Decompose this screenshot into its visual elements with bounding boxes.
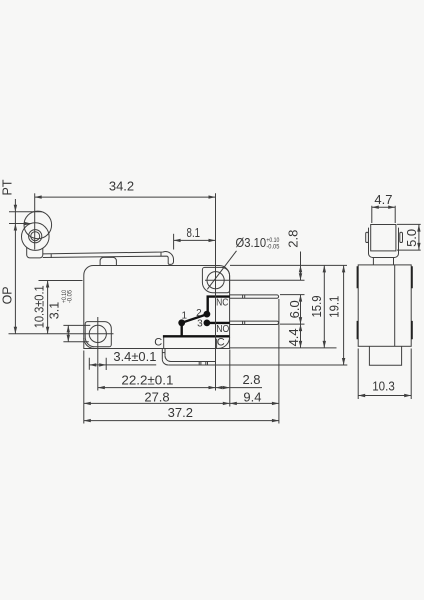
svg-text:Ø3.10: Ø3.10	[236, 235, 267, 250]
svg-text:2: 2	[196, 308, 202, 319]
svg-text:C: C	[154, 336, 162, 348]
svg-text:4.4: 4.4	[286, 328, 301, 346]
svg-text:5.0: 5.0	[404, 229, 419, 247]
svg-text:3: 3	[197, 319, 203, 330]
svg-text:3.4±0.1: 3.4±0.1	[113, 349, 156, 364]
svg-text:-0.05: -0.05	[266, 243, 279, 250]
svg-text:-0.05: -0.05	[66, 290, 73, 303]
svg-text:2.8: 2.8	[242, 372, 260, 387]
svg-text:27.8: 27.8	[144, 390, 169, 405]
svg-text:NO: NO	[216, 324, 229, 335]
svg-text:2.8: 2.8	[285, 230, 300, 248]
svg-text:9.4: 9.4	[243, 389, 261, 404]
svg-text:6.0: 6.0	[287, 300, 302, 318]
svg-text:PT: PT	[0, 179, 14, 195]
svg-text:37.2: 37.2	[168, 405, 193, 420]
svg-text:10.3±0.1: 10.3±0.1	[32, 285, 47, 328]
svg-text:4.7: 4.7	[374, 192, 392, 207]
svg-text:8.1: 8.1	[187, 225, 201, 240]
svg-text:OP: OP	[1, 286, 15, 304]
svg-text:1: 1	[182, 311, 188, 322]
svg-text:22.2±0.1: 22.2±0.1	[121, 372, 173, 387]
svg-text:C: C	[217, 337, 225, 349]
svg-text:34.2: 34.2	[109, 179, 134, 194]
svg-text:15.9: 15.9	[309, 296, 324, 318]
svg-text:10.3: 10.3	[372, 378, 395, 393]
svg-text:19.1: 19.1	[326, 296, 341, 318]
svg-text:3.1: 3.1	[47, 302, 61, 319]
svg-text:NC: NC	[216, 298, 228, 309]
